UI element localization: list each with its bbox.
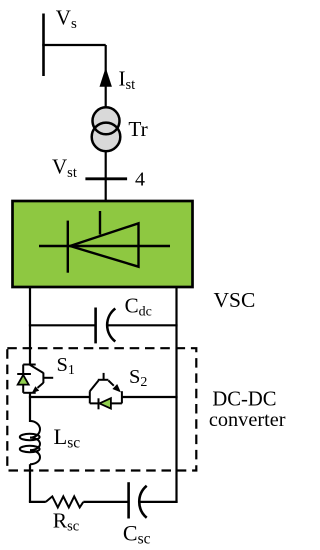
capacitor Csc straight plate [127, 482, 130, 518]
bottom wire right [139, 501, 178, 503]
capacitor Cdc curved plate [107, 309, 115, 342]
S2 IGBT collector lead [90, 381, 99, 392]
S2 diode branch wire [90, 402, 122, 404]
wire S1 to S2 [29, 396, 90, 398]
svg-text:converter: converter [209, 409, 286, 431]
Lsc coil turn 3 [30, 450, 40, 464]
Cdc wire left [29, 324, 96, 326]
right rail [175, 286, 177, 503]
Tr secondary outline [92, 123, 121, 152]
switch S1 (IGBT with antiparallel diode) [17, 365, 53, 394]
Lsc coil loop 2 [20, 446, 40, 452]
S2 right bracket [121, 391, 123, 403]
current arrow Ist [100, 68, 112, 87]
S1 IGBT collector lead [30, 365, 44, 373]
VSC symbol bar [67, 221, 69, 273]
4-conductor slash tick [85, 177, 127, 180]
Lsc coil turn 2 [30, 438, 40, 451]
wire bus to stub [42, 44, 105, 46]
left rail S1 to inductor [29, 393, 31, 422]
S1 IGBT gate lead [43, 377, 53, 379]
resistor Rsc [46, 496, 84, 507]
S1 diode branch wire [22, 365, 24, 393]
switch S2 (IGBT with antiparallel diode) [90, 373, 122, 409]
S1 IGBT emitter arrow [32, 386, 40, 393]
bottom wire middle [83, 501, 128, 503]
S2 diode triangle [99, 398, 111, 408]
wire transformer to VSC [105, 151, 107, 201]
VSC symbol gate tick [99, 211, 101, 235]
S1 diode cathode bar [17, 373, 31, 375]
node Vs bus bar [42, 14, 45, 77]
S2 IGBT emitter arrow [112, 384, 121, 392]
left rail inductor to bottom [29, 464, 31, 502]
left rail upper [29, 286, 31, 365]
capacitor Cdc straight plate [94, 308, 97, 344]
svg-text:Tr: Tr [128, 117, 147, 141]
Lsc coil turn 1 [30, 421, 40, 438]
svg-text:VSC: VSC [214, 288, 256, 312]
svg-text:DC-DC: DC-DC [212, 389, 276, 411]
Tr primary winding circle [93, 107, 120, 134]
VSC symbol triangle [70, 223, 139, 266]
S1 IGBT body bar [42, 373, 44, 383]
Tr secondary winding circle [92, 123, 121, 152]
dashed DC-DC box [7, 348, 196, 470]
VSC symbol wire [39, 245, 170, 247]
Lsc coil loop 1 [20, 434, 40, 440]
converter VSC green box [13, 201, 193, 287]
S1 IGBT emitter lead [38, 383, 44, 388]
capacitor Csc curved plate [139, 486, 146, 518]
S2 IGBT body bar [98, 379, 109, 381]
inductor Lsc [20, 421, 40, 464]
S2 diode cathode bar [98, 398, 100, 409]
wire down to transformer [105, 45, 107, 107]
svg-text:4: 4 [135, 168, 145, 190]
transformer Tr [92, 107, 121, 151]
bottom wire left [29, 501, 46, 503]
S2 IGBT emitter lead [108, 381, 113, 386]
wire S2 to right rail [122, 396, 178, 398]
S2 left bracket [89, 391, 91, 403]
S2 IGBT gate lead [103, 373, 105, 380]
Tr primary outline [93, 107, 120, 134]
S1 diode triangle [18, 375, 29, 385]
Cdc wire right [107, 324, 177, 326]
S1 collector bracket [23, 364, 36, 366]
S1 emitter bracket [23, 392, 36, 394]
